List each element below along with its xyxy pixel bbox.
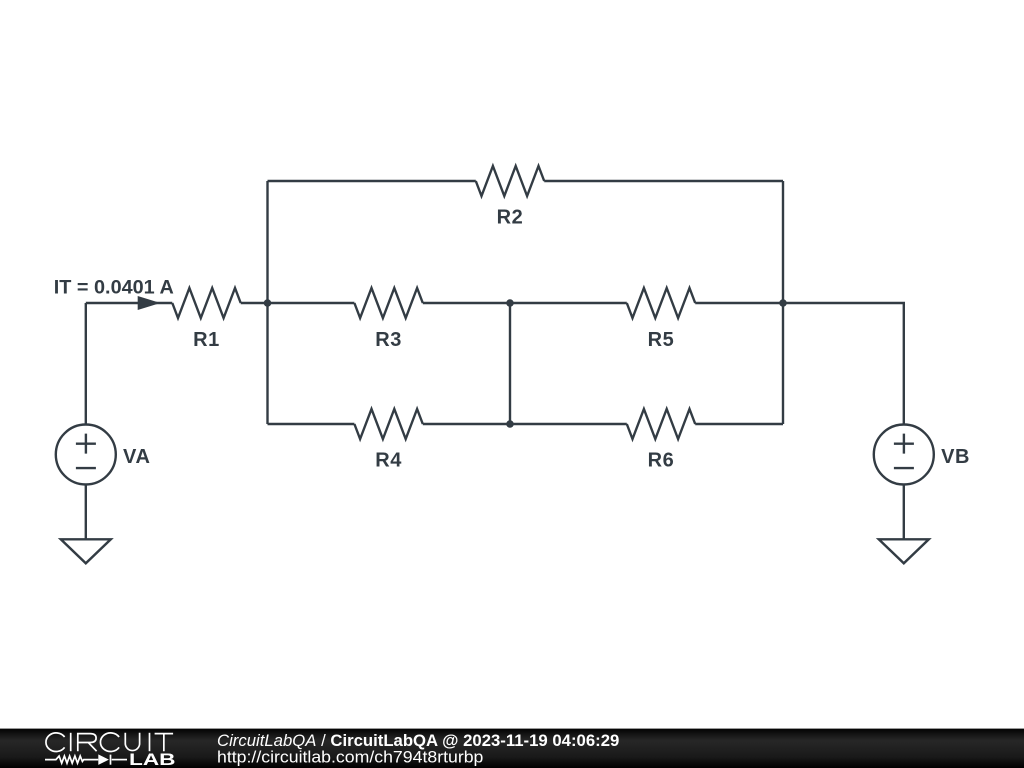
VB plus sign [894,434,914,454]
bottom attribution bar [0,729,1024,768]
resistor R1 [172,288,240,318]
VA plus sign [76,434,96,454]
wire: R5 right to VB corner [695,303,904,424]
svg-text:R5: R5 [648,329,675,351]
CircuitLab logo wordmark LAB [129,751,176,768]
voltage source VA body [56,425,116,485]
wire: bottom rail right of R6 [695,423,783,425]
wire: R1 right to node A [241,302,355,304]
wire: right vertical riser x=783 [782,181,784,424]
wire: bottom rail R4 to R6 [423,423,627,425]
svg-text:R3: R3 [375,329,402,351]
VA minus sign [76,467,96,469]
svg-text:R1: R1 [193,329,220,351]
svg-text:R4: R4 [375,449,402,471]
voltage source VB body [874,425,934,485]
wire: bottom rail left of R4 [268,423,355,425]
resistor R4 [354,409,422,439]
resistor R2 [476,166,544,196]
wire: left vertical riser x=267.5 [266,181,268,424]
svg-text:VB: VB [941,446,970,468]
junction node C (783,303) [779,299,787,307]
wire: top rail left of R2 [268,180,476,182]
resistor R3 [354,288,422,318]
wire: middle vertical riser x=510 [509,303,511,424]
wire: VB bottom lead [903,484,905,538]
ground symbol (VB) [879,539,929,563]
CircuitLab logo resistor-diode glyph [45,755,127,765]
svg-text:R2: R2 [497,206,524,228]
svg-text:LAB: LAB [129,751,176,768]
current arrow IT [138,296,161,310]
resistor R6 [627,409,695,439]
wire: VA top lead to R1 left [86,302,173,304]
wire: R3 right to node B [423,302,627,304]
svg-text:IT = 0.0401 A: IT = 0.0401 A [54,277,174,298]
wire: VA bottom lead [85,484,87,538]
CircuitLab logo wordmark CIRCUIT (thin outline letters) [46,733,173,752]
wire: VA vertical [85,303,87,424]
VB minus sign [894,467,914,469]
svg-text:R6: R6 [648,449,675,471]
ground symbol (VA) [61,539,111,563]
junction node A (267.5,303) [264,299,272,307]
svg-text:VA: VA [123,446,151,468]
junction node B (510,303) [506,299,514,307]
wire: top rail right of R2 [544,180,783,182]
junction node D (510,424) [506,420,514,428]
resistor R5 [627,288,695,318]
svg-text:http://circuitlab.com/ch794t8r: http://circuitlab.com/ch794t8rturbp [217,747,483,766]
